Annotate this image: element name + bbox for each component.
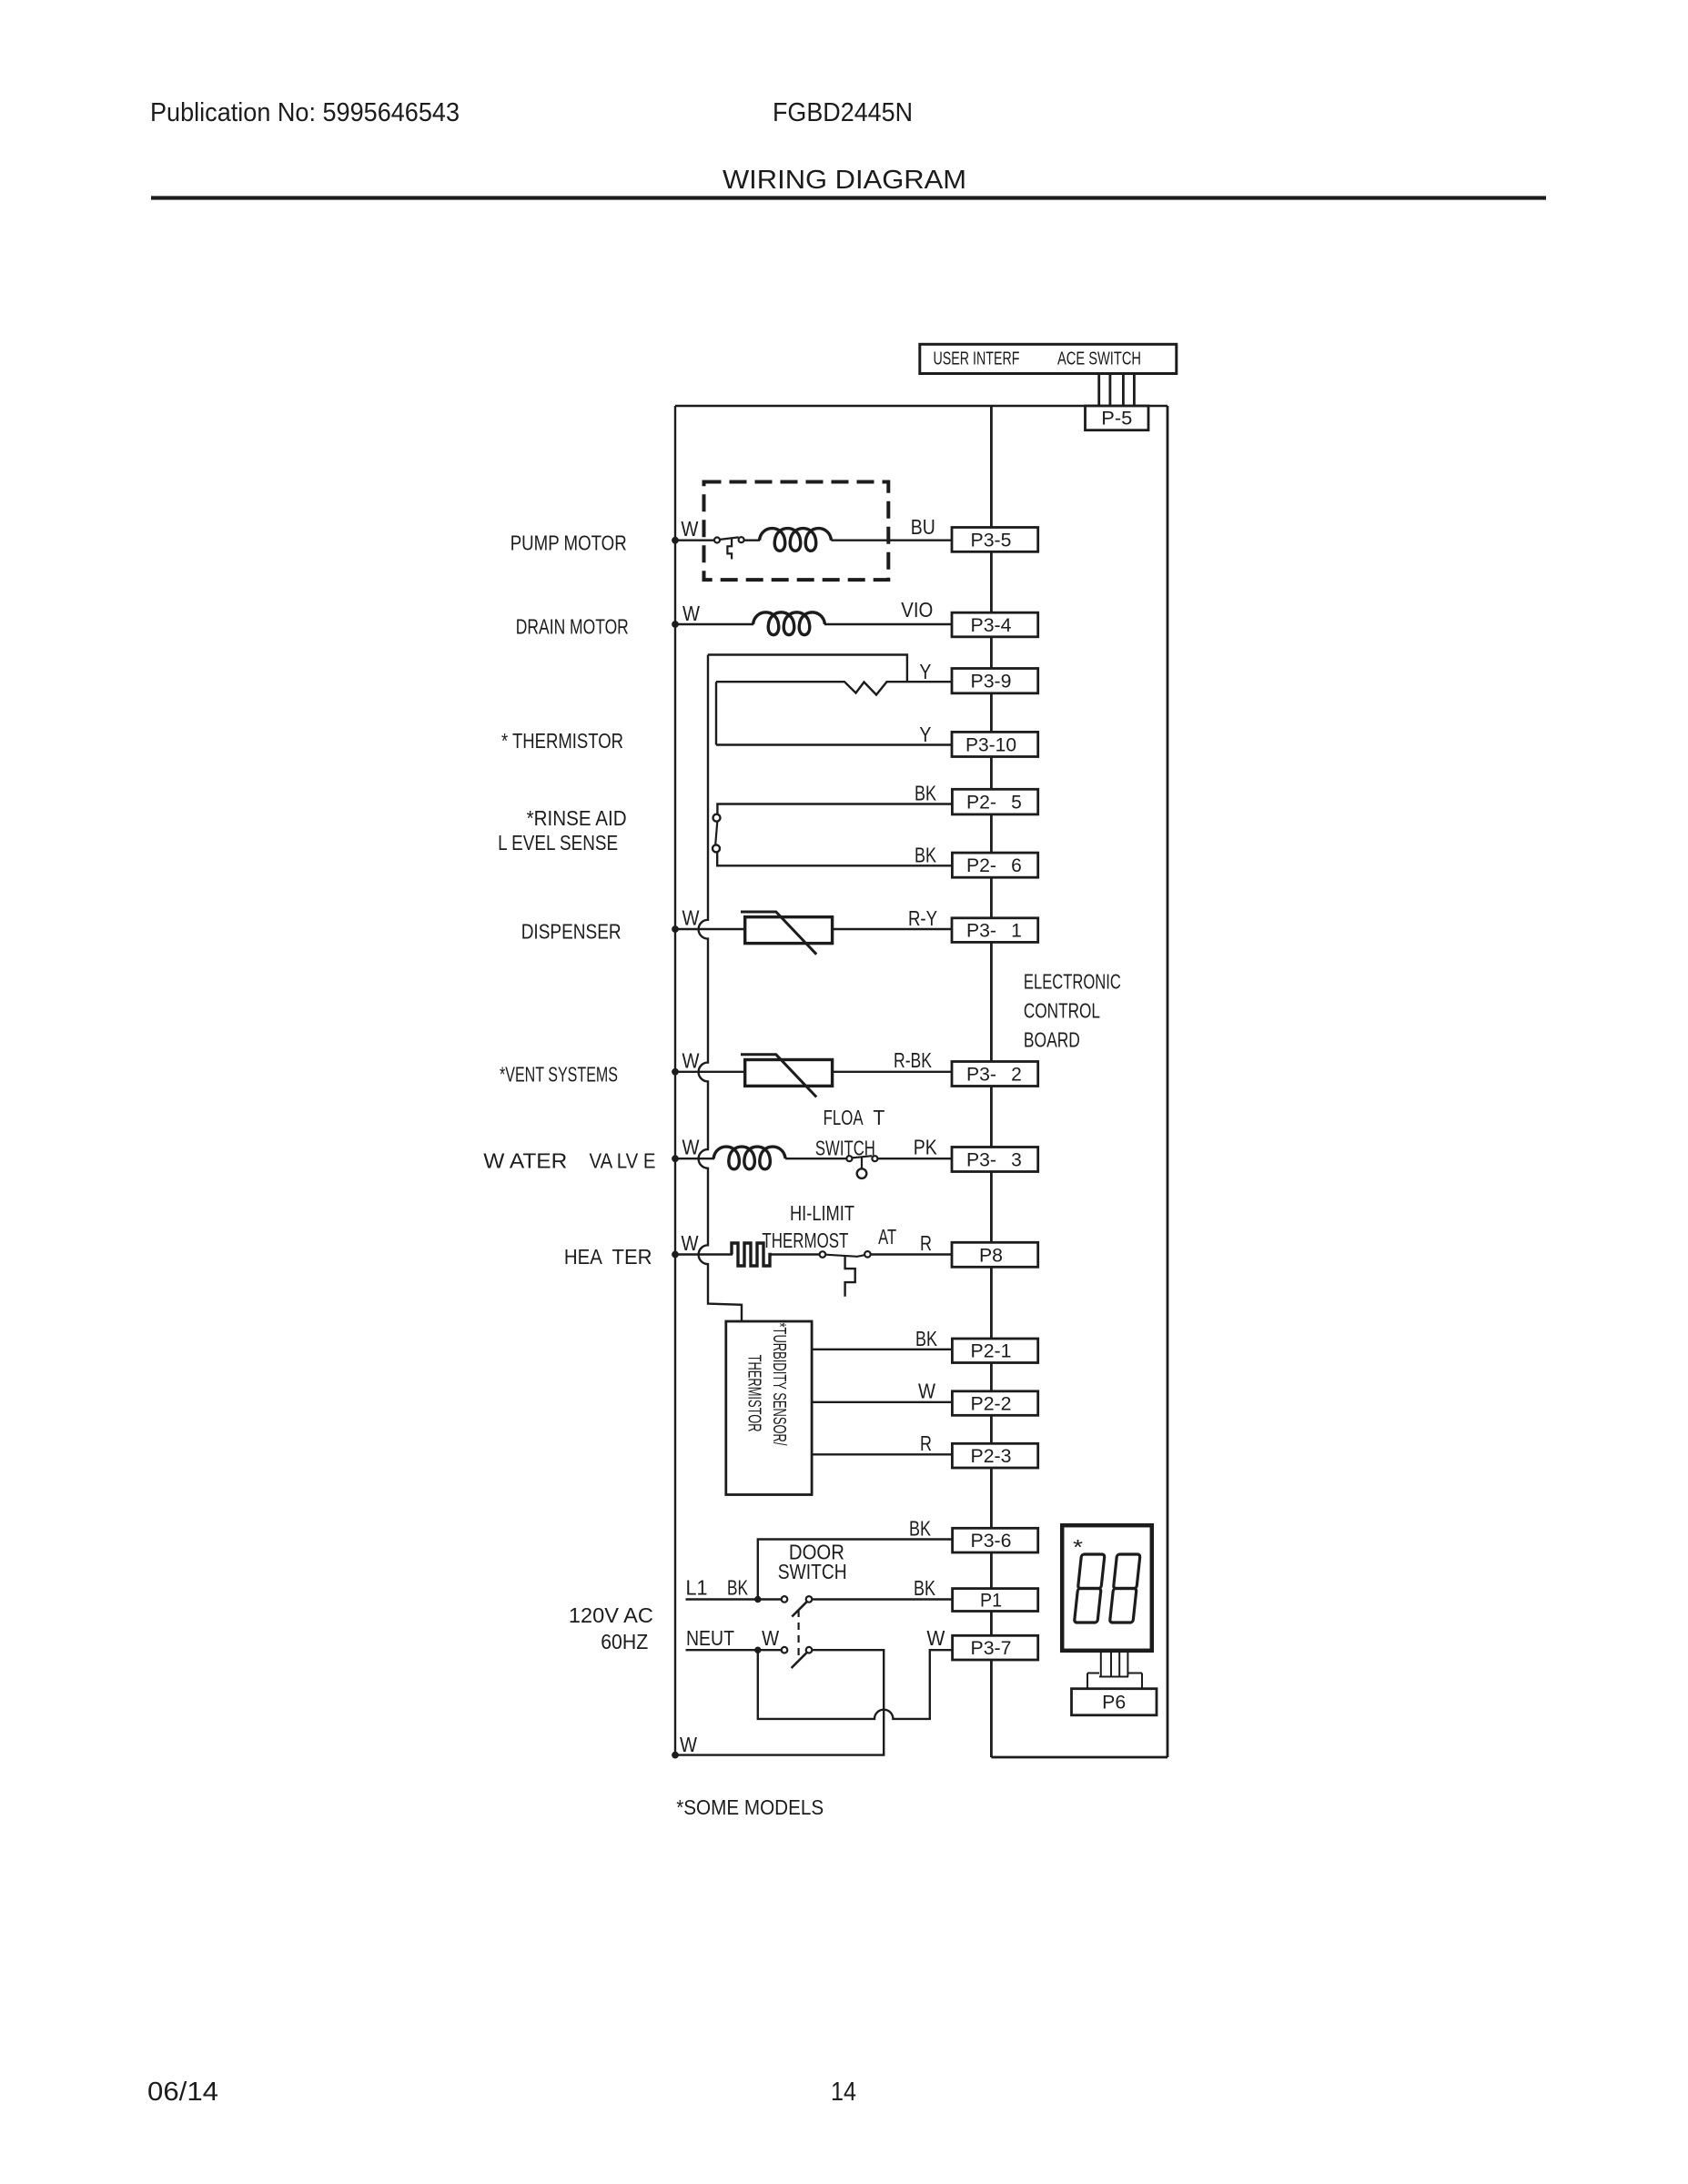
7-segment digit 1 bbox=[1075, 1554, 1106, 1623]
water valve solenoid coil bbox=[713, 1147, 785, 1169]
svg-text:2: 2 bbox=[1011, 1065, 1022, 1086]
switch contact circles bbox=[714, 538, 720, 543]
svg-text:W ATER: W ATER bbox=[483, 1149, 567, 1173]
svg-text:BK: BK bbox=[915, 1327, 938, 1350]
thermostat blade bbox=[825, 1255, 864, 1257]
svg-text:P3-4: P3-4 bbox=[971, 615, 1012, 636]
svg-text:ELECTRONIC: ELECTRONIC bbox=[1024, 969, 1121, 993]
svg-text:P3-9: P3-9 bbox=[971, 672, 1012, 693]
svg-text:VA LV E: VA LV E bbox=[590, 1149, 656, 1173]
connector P2-2 bbox=[952, 1391, 1037, 1416]
svg-text:5: 5 bbox=[1011, 793, 1022, 814]
svg-text:BK: BK bbox=[909, 1516, 932, 1540]
svg-text:BU: BU bbox=[911, 515, 935, 539]
connector P-5 bbox=[1086, 406, 1149, 430]
connector P3-1 bbox=[952, 918, 1038, 943]
display module box bbox=[1062, 1525, 1152, 1651]
connector P3-5 bbox=[952, 528, 1038, 552]
wire pin 1 bbox=[1097, 374, 1100, 407]
wire W lead bbox=[675, 540, 714, 541]
svg-text:14: 14 bbox=[831, 2078, 856, 2107]
svg-text:FGBD2445N: FGBD2445N bbox=[773, 98, 913, 127]
svg-text:W: W bbox=[918, 1380, 935, 1403]
title rule bbox=[151, 196, 1546, 199]
drain motor winding coil bbox=[753, 612, 825, 635]
connector P2-1 bbox=[952, 1339, 1037, 1363]
wire from neutral switch down to bottom W wire bbox=[812, 1650, 884, 1754]
svg-text:* THERMISTOR: * THERMISTOR bbox=[501, 729, 623, 753]
wire R-BK to P3-2 bbox=[833, 1071, 952, 1073]
wire R to P2-3 bbox=[812, 1453, 952, 1455]
wire BK to P1 bbox=[812, 1598, 952, 1600]
mechanical link dashed bbox=[797, 1610, 799, 1661]
svg-text:P2-: P2- bbox=[966, 793, 996, 814]
svg-text:BK: BK bbox=[915, 843, 937, 866]
svg-text:06/14: 06/14 bbox=[147, 2078, 218, 2107]
svg-text:Y: Y bbox=[919, 660, 931, 683]
wire P2-6 lead bbox=[717, 853, 952, 866]
reed switch contact circles bbox=[713, 814, 721, 822]
svg-text:BK: BK bbox=[915, 781, 937, 804]
wire left leg down bbox=[715, 682, 717, 744]
wire pin 3 bbox=[1122, 374, 1125, 407]
connector P3-3 bbox=[952, 1148, 1038, 1172]
wire R to P8 bbox=[871, 1253, 952, 1255]
wire W lead bbox=[675, 928, 745, 930]
7-segment digit 2 bbox=[1110, 1554, 1141, 1623]
wire: control board left bus bbox=[990, 406, 993, 1757]
svg-text:L EVEL SENSE: L EVEL SENSE bbox=[498, 831, 618, 854]
svg-text:SWITCH: SWITCH bbox=[778, 1560, 847, 1583]
node: junction dot bbox=[672, 1156, 679, 1162]
wire W lead bbox=[675, 623, 753, 625]
display pins bbox=[1087, 1653, 1142, 1689]
svg-text:P2-2: P2-2 bbox=[971, 1394, 1012, 1415]
connector P3-10 bbox=[952, 732, 1038, 756]
svg-text:W: W bbox=[682, 602, 700, 625]
vent wax motor element bbox=[745, 1060, 833, 1087]
svg-text:P2-: P2- bbox=[966, 855, 996, 876]
wire R-Y to P3-1 bbox=[833, 928, 952, 930]
connector P2-5 bbox=[952, 789, 1037, 814]
svg-text:P3-10: P3-10 bbox=[965, 734, 1016, 755]
wire to float switch bbox=[785, 1158, 846, 1159]
svg-text:R: R bbox=[920, 1431, 932, 1455]
wire: control board right edge bbox=[1167, 406, 1169, 1757]
door switch neutral contacts bbox=[782, 1647, 788, 1653]
connector P3-9 bbox=[952, 669, 1038, 693]
node: bottom W dot bbox=[672, 1752, 679, 1758]
wire W lead bbox=[675, 1071, 745, 1073]
svg-text:P3-6: P3-6 bbox=[971, 1531, 1012, 1552]
svg-text:WIRING DIAGRAM: WIRING DIAGRAM bbox=[723, 166, 966, 195]
svg-text:P3-: P3- bbox=[966, 1150, 996, 1171]
hi-limit thermostat contact circles bbox=[820, 1251, 826, 1258]
wire thermistor top loop bbox=[708, 655, 907, 682]
node: junction dot on left rail bbox=[672, 537, 679, 543]
svg-text:*SOME MODELS: *SOME MODELS bbox=[676, 1795, 824, 1819]
svg-text:FLOA: FLOA bbox=[824, 1106, 864, 1129]
wire NEUT lead bbox=[686, 1649, 783, 1651]
wire: control board bottom edge bbox=[991, 1756, 1167, 1759]
svg-text:CONTROL: CONTROL bbox=[1024, 998, 1100, 1022]
wire W lead bbox=[675, 1158, 714, 1159]
wire L1 lead bbox=[686, 1598, 783, 1600]
svg-text:*TURBIDITY SENSOR/: *TURBIDITY SENSOR/ bbox=[769, 1323, 789, 1446]
svg-text:BK: BK bbox=[727, 1576, 748, 1600]
svg-text:HI-LIMIT: HI-LIMIT bbox=[790, 1201, 854, 1225]
node: junction dot bbox=[672, 1068, 679, 1075]
svg-text:Publication No: 5995646543: Publication No: 5995646543 bbox=[150, 98, 460, 127]
connector P3-2 bbox=[952, 1062, 1038, 1087]
svg-text:PK: PK bbox=[914, 1136, 938, 1159]
wire pin 4 bbox=[1133, 374, 1136, 407]
svg-text:R-Y: R-Y bbox=[908, 906, 937, 930]
wire P2-5 lead bbox=[717, 804, 952, 814]
svg-text:W: W bbox=[926, 1626, 945, 1650]
float actuator stem and float bbox=[861, 1158, 863, 1169]
wire: bottom neutral W wire bbox=[675, 1754, 884, 1755]
wire pin 2 bbox=[1109, 374, 1112, 407]
svg-text:THERMISTOR: THERMISTOR bbox=[744, 1355, 764, 1432]
svg-text:TER: TER bbox=[612, 1245, 652, 1269]
svg-text:L1: L1 bbox=[686, 1576, 708, 1600]
wire to thermostat bbox=[772, 1253, 820, 1255]
pump motor winding coil bbox=[760, 529, 832, 551]
dashed enclosure bbox=[704, 482, 889, 581]
door switch line contacts bbox=[782, 1596, 788, 1603]
node: junction dot bbox=[672, 926, 679, 933]
reed switch blade bbox=[715, 822, 717, 845]
door switch neutral blade bbox=[792, 1653, 807, 1668]
svg-text:DISPENSER: DISPENSER bbox=[521, 920, 622, 944]
wire VIO to P3-4 bbox=[824, 623, 952, 625]
heater element bbox=[732, 1243, 772, 1266]
user interface switch pins bbox=[1099, 374, 1135, 407]
wire: outer left rail bbox=[674, 406, 676, 1755]
connector P1 bbox=[953, 1589, 1038, 1612]
switch actuator hook bbox=[727, 539, 732, 560]
wire BK to P2-1 bbox=[812, 1349, 952, 1350]
svg-text:HEA: HEA bbox=[564, 1245, 603, 1269]
svg-text:BOARD: BOARD bbox=[1024, 1027, 1080, 1051]
svg-text:P3-: P3- bbox=[966, 921, 996, 942]
svg-text:P8: P8 bbox=[979, 1245, 1003, 1266]
connector P2-6 bbox=[952, 853, 1037, 877]
connector P6 bbox=[1072, 1689, 1157, 1715]
svg-text:VIO: VIO bbox=[901, 598, 933, 622]
connector P2-3 bbox=[952, 1443, 1037, 1468]
svg-text:P6: P6 bbox=[1102, 1693, 1126, 1714]
svg-text:DRAIN MOTOR: DRAIN MOTOR bbox=[516, 615, 629, 639]
svg-text:R: R bbox=[920, 1231, 932, 1255]
svg-text:W: W bbox=[681, 517, 698, 541]
svg-text:P3-5: P3-5 bbox=[971, 530, 1012, 551]
node: junction dot bbox=[672, 1251, 679, 1258]
node: L1 junction dot bbox=[755, 1596, 761, 1602]
svg-text:60HZ: 60HZ bbox=[601, 1630, 648, 1653]
svg-text:P-5: P-5 bbox=[1101, 409, 1132, 430]
svg-text:USER INTERF: USER INTERF bbox=[934, 349, 1020, 369]
svg-text:R-BK: R-BK bbox=[894, 1048, 933, 1072]
float switch contact circles bbox=[846, 1156, 852, 1161]
svg-text:3: 3 bbox=[1011, 1150, 1022, 1171]
dispenser wax motor element bbox=[745, 917, 833, 944]
connector P3-7 bbox=[953, 1635, 1038, 1660]
svg-text:W: W bbox=[682, 1048, 700, 1072]
connector P3-4 bbox=[952, 612, 1038, 637]
wire to coil bbox=[744, 540, 760, 541]
svg-text:AT: AT bbox=[878, 1225, 896, 1249]
user interface switch box bbox=[920, 344, 1177, 373]
wire W to P2-2 bbox=[812, 1401, 952, 1403]
door switch line blade bbox=[792, 1602, 806, 1616]
wire W lead bbox=[675, 1253, 733, 1255]
svg-text:T: T bbox=[873, 1106, 884, 1129]
svg-text:P3-7: P3-7 bbox=[971, 1638, 1012, 1659]
svg-text:PUMP MOTOR: PUMP MOTOR bbox=[510, 531, 627, 554]
wire neutral bypass loop bbox=[758, 1650, 952, 1719]
switch blade bbox=[720, 537, 739, 540]
svg-text:P2-1: P2-1 bbox=[971, 1341, 1012, 1362]
MAIN LINES bbox=[675, 406, 1167, 1757]
svg-text:P1: P1 bbox=[980, 1591, 1002, 1612]
svg-text:120V AC: 120V AC bbox=[569, 1603, 653, 1627]
float switch blade bbox=[852, 1156, 872, 1158]
turbidity sensor box bbox=[726, 1321, 812, 1495]
svg-text:*RINSE AID: *RINSE AID bbox=[527, 806, 627, 830]
connector P8 bbox=[952, 1242, 1038, 1267]
svg-text:BK: BK bbox=[914, 1576, 936, 1600]
svg-text:THERMOST: THERMOST bbox=[762, 1228, 848, 1252]
wire P3-10 lead bbox=[716, 743, 952, 745]
wire BU to P3-5 bbox=[831, 540, 952, 541]
svg-text:P3-: P3- bbox=[966, 1065, 996, 1086]
svg-text:P2-3: P2-3 bbox=[971, 1446, 1012, 1467]
wire P3-9 lead with resistor zigzag bbox=[716, 682, 952, 694]
svg-text:*VENT SYSTEMS: *VENT SYSTEMS bbox=[500, 1063, 618, 1087]
svg-text:NEUT: NEUT bbox=[686, 1626, 734, 1650]
svg-text:W: W bbox=[762, 1626, 779, 1650]
node: NEUT junction dot bbox=[755, 1647, 761, 1653]
svg-text:W: W bbox=[680, 1733, 697, 1756]
svg-text:W: W bbox=[682, 1231, 699, 1255]
svg-text:6: 6 bbox=[1011, 855, 1022, 876]
wire BK to P3-6 bbox=[758, 1540, 952, 1600]
svg-text:W: W bbox=[682, 1136, 700, 1159]
node: junction dot bbox=[672, 622, 679, 628]
wire PK to P3-3 bbox=[877, 1158, 952, 1159]
svg-text:Y: Y bbox=[919, 723, 931, 746]
svg-text:1: 1 bbox=[1011, 921, 1022, 942]
svg-text:ACE SWITCH: ACE SWITCH bbox=[1057, 349, 1141, 369]
wire rail with crossover hops bbox=[699, 655, 742, 1322]
svg-text:W: W bbox=[682, 906, 700, 930]
thermostat actuator step bbox=[845, 1256, 855, 1296]
wire: outer top edge bbox=[675, 405, 1167, 407]
connector P3-6 bbox=[953, 1528, 1038, 1552]
